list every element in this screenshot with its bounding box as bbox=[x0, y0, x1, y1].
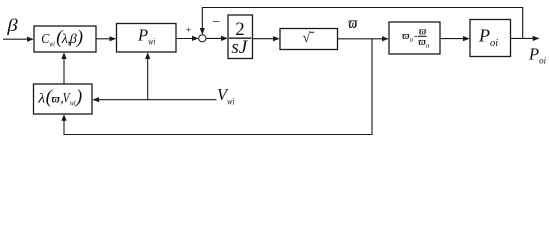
svg-text:+: + bbox=[186, 25, 192, 36]
svg-text:√: √ bbox=[303, 31, 311, 46]
svg-text:−: − bbox=[212, 15, 220, 30]
svg-text:): ) bbox=[76, 27, 83, 48]
svg-text:β: β bbox=[6, 16, 18, 35]
svg-text:): ) bbox=[75, 86, 82, 107]
svg-text:ϖ: ϖ bbox=[348, 15, 357, 33]
svg-text:β: β bbox=[69, 32, 77, 47]
svg-text:sJ: sJ bbox=[231, 37, 248, 58]
svg-text:-: - bbox=[414, 31, 417, 42]
svg-text:wi: wi bbox=[70, 98, 76, 107]
svg-text:wi: wi bbox=[49, 40, 54, 49]
svg-text:λ: λ bbox=[37, 91, 45, 106]
svg-text:ϖ: ϖ bbox=[51, 93, 60, 105]
